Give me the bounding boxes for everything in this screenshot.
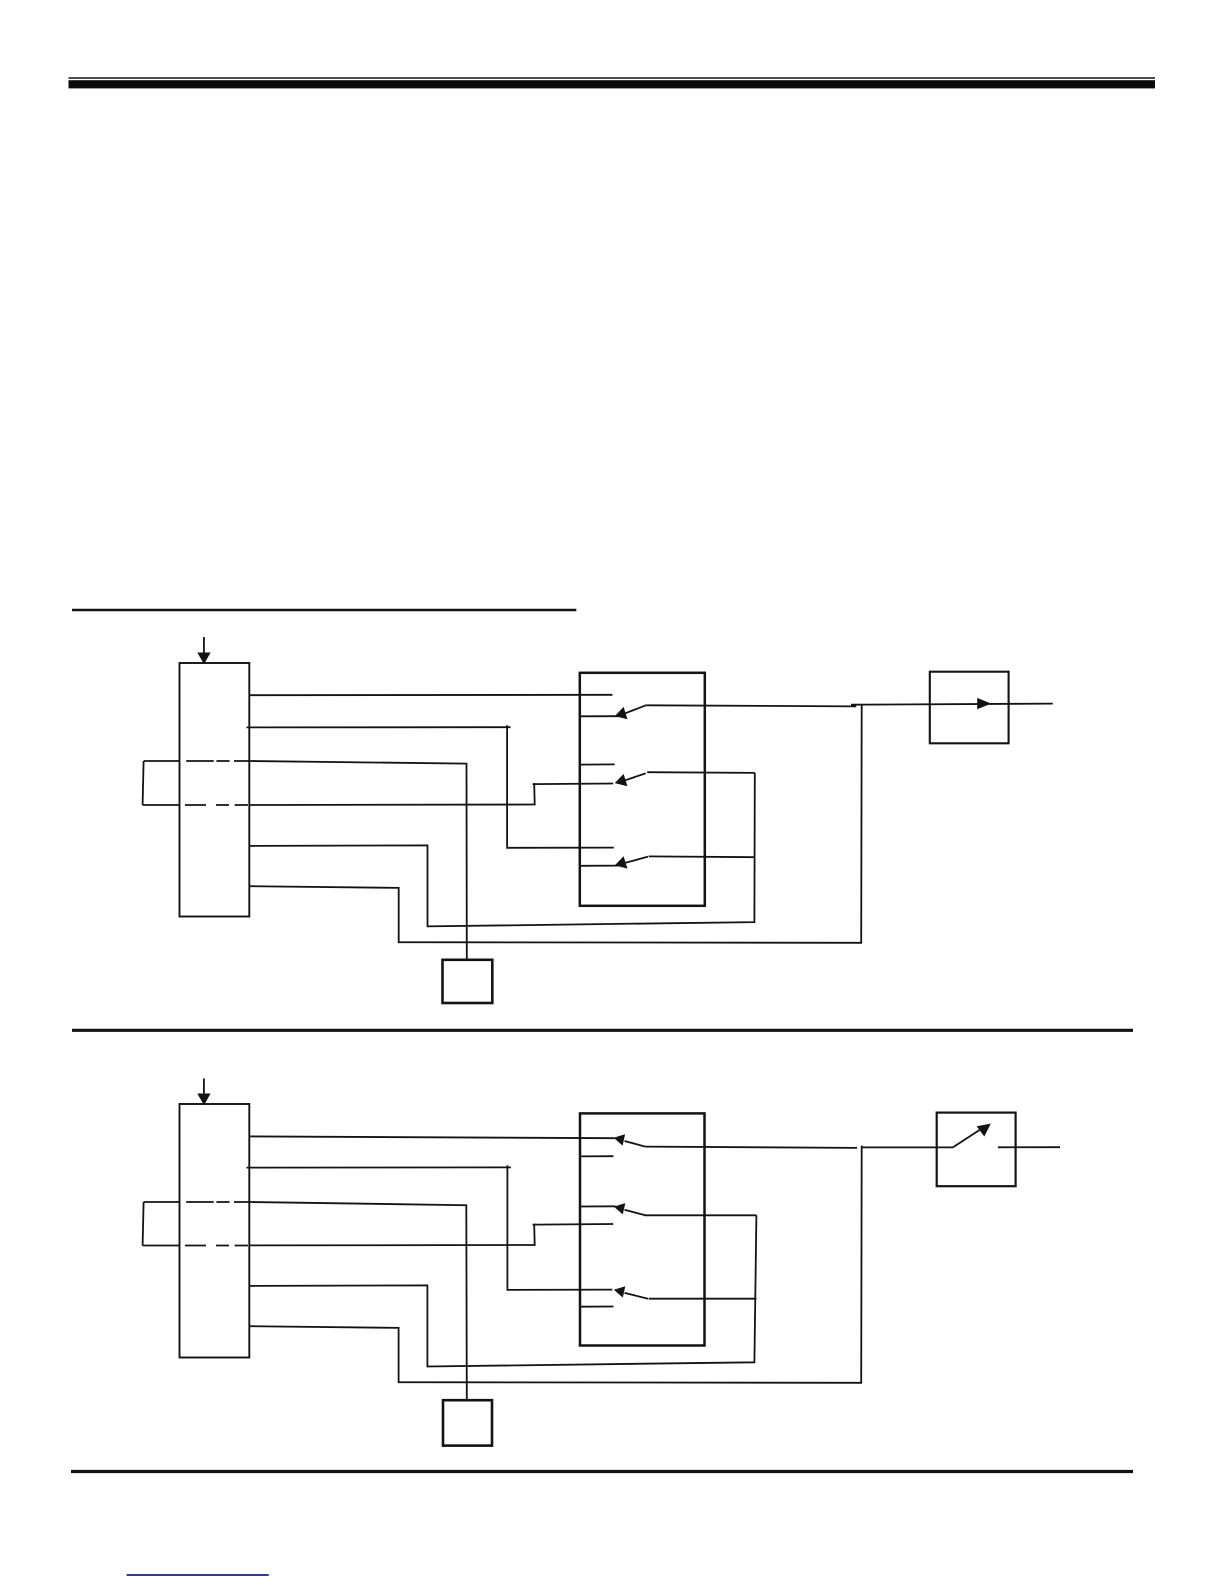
dashed cable run through J2 (lower) [185, 1245, 249, 1247]
wire D (cable lower conductor to switch box ch2 lower contact) [249, 784, 613, 806]
ch1 wiper arrow [615, 705, 646, 719]
header thin rule [69, 77, 1156, 79]
ch3 lower stub [580, 1306, 614, 1308]
ch1 output wire to out box [645, 1147, 857, 1148]
open switch arm with arrowhead [953, 1124, 991, 1148]
output box exit wire [998, 1146, 1060, 1148]
input arrow into J1 [197, 637, 210, 664]
wire A (J1 pin1 to switch box ch1 upper contact) [249, 694, 612, 696]
connector block J2 [180, 1104, 250, 1358]
hyperlink underline [127, 1574, 269, 1576]
wire E (J1 pin3 to wiper bus vertical) [249, 773, 755, 927]
ch3 lower stub [580, 865, 620, 867]
ch2 wiper arrow [615, 772, 755, 786]
ch2 upper stub [580, 1205, 616, 1207]
wire D2 (cable lower conductor to switch box ch2 lower contact) [249, 1224, 613, 1245]
ch1 lower stub [580, 1155, 614, 1157]
wire F2 (J2 pin4 to output node vertical) [249, 1146, 861, 1383]
switch box SW2 [580, 1113, 705, 1345]
connector block J1 [180, 663, 250, 917]
ch2 upper stub [580, 763, 615, 765]
output box (closed state) [930, 672, 1009, 744]
header thick bar [69, 80, 1156, 88]
ch3 wiper arrow [615, 856, 755, 868]
dashed cable run through J1 (upper) [186, 760, 249, 762]
ch2 wiper arrow (on upper contact) [614, 1203, 757, 1215]
ch3 wiper arrow (on upper contact) [614, 1286, 757, 1298]
dashed cable run through J1 (lower) [185, 804, 249, 806]
ch1 wiper arrow (on upper contact) [614, 1134, 646, 1146]
output box (open state) [937, 1113, 1016, 1187]
cable stub left of J2 [143, 1202, 180, 1246]
separator rule 1 [72, 1029, 1133, 1032]
wire A2 (J2 pin1 to switch box ch1 upper contact) [249, 1136, 614, 1138]
ground square GND1 [443, 960, 493, 1003]
switch box SW1 [580, 673, 705, 906]
ch1 output wire to out box [646, 705, 856, 706]
ch1 lower stub [580, 715, 621, 717]
input arrow into J2 [197, 1079, 210, 1106]
wire B (J1 pin2 down to switch box ch3 upper contact) [247, 726, 511, 728]
right arrowhead inside output box [977, 698, 991, 709]
dashed cable run through J2 (upper) [186, 1201, 249, 1203]
wire E2 (J2 pin3 to wiper bus vertical) [249, 1215, 756, 1366]
wire F (J1 pin4 to output node vertical) [249, 705, 861, 943]
ground square GND2 [443, 1400, 492, 1445]
heading underline [72, 609, 576, 612]
wire C (cable upper conductor to ground square) [249, 761, 466, 960]
separator rule 2 [71, 1470, 1133, 1473]
wire B2 (J2 pin2 down to switch box ch3 upper contact) [247, 1166, 511, 1168]
cable stub left of J1 [143, 761, 180, 805]
wire C2 (cable upper conductor to ground square) [249, 1202, 466, 1400]
